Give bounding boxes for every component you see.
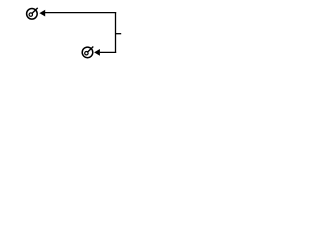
arrowhead into M2 [94, 49, 100, 56]
wire bottom horizontal [100, 51, 116, 53]
wire top horizontal [45, 12, 116, 14]
arrowhead into M1 [39, 10, 45, 17]
meter symbol M2 [82, 47, 93, 58]
wire right vertical [115, 12, 117, 53]
stub wire [116, 33, 122, 35]
meter symbol M1 [27, 8, 38, 19]
